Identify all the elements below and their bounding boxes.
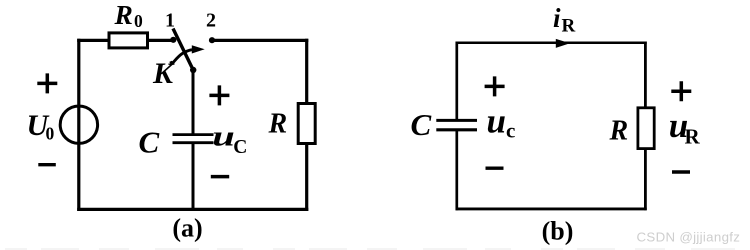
svg-text:0: 0: [134, 11, 143, 31]
svg-text:(b): (b): [542, 217, 574, 246]
node 2: [209, 37, 215, 43]
wire: right vertical lower: [305, 144, 308, 212]
voltage source U0 circle: [60, 106, 97, 143]
svg-text:R: R: [685, 125, 701, 149]
current arrow iR: [556, 39, 570, 48]
resistor R (b): [638, 108, 654, 149]
svg-text:R: R: [268, 109, 288, 140]
wire: capacitor to bottom: [192, 143, 195, 210]
wire: left vertical upper (b): [455, 42, 458, 121]
svg-text:(a): (a): [172, 214, 202, 243]
wire: right vertical lower (b): [644, 149, 647, 211]
svg-text:u: u: [212, 120, 235, 152]
wire: left vertical lower (b): [455, 130, 458, 210]
minus sign (capacitor a): [211, 175, 229, 179]
wire: right vertical upper (b): [644, 42, 647, 108]
svg-text:2: 2: [206, 10, 216, 32]
svg-text:C: C: [139, 125, 160, 160]
capacitor C (a) bottom plate: [173, 141, 214, 144]
faint cropped text line at bottom: [5, 248, 745, 250]
wire: right vertical upper: [305, 39, 308, 104]
node 1: [170, 37, 176, 43]
svg-text:i: i: [553, 3, 561, 33]
resistor R0: [109, 33, 148, 48]
capacitor C (b) bottom plate: [436, 128, 477, 131]
svg-text:0: 0: [46, 124, 55, 144]
wire: top-left segment from left corner to R0: [77, 39, 109, 42]
minus sign (capacitor b): [486, 166, 504, 169]
capacitor C (a) top plate: [173, 133, 214, 136]
wire: left vertical: [77, 39, 80, 211]
svg-text:K: K: [152, 57, 175, 90]
wire: switch to capacitor: [192, 70, 195, 135]
svg-text:C: C: [411, 107, 432, 142]
svg-text:R: R: [114, 0, 133, 30]
plus sign (capacitor a): [209, 85, 229, 105]
minus sign (resistor b): [672, 170, 690, 173]
wire: node 2 to top-right corner: [212, 39, 308, 42]
svg-text:R: R: [609, 115, 629, 146]
svg-text:C: C: [233, 137, 247, 158]
capacitor C (b) top plate: [436, 119, 477, 122]
wire: bottom horizontal: [77, 208, 308, 211]
svg-text:u: u: [487, 101, 506, 140]
plus sign (resistor b): [671, 81, 691, 101]
svg-text:CSDN @jjjiangfz: CSDN @jjjiangfz: [637, 229, 741, 244]
plus sign (capacitor b): [485, 76, 505, 96]
switch K blade: [173, 29, 193, 71]
svg-text:1: 1: [165, 10, 175, 32]
switch throw arrow (curved): [171, 50, 192, 63]
switch pivot node: [190, 67, 196, 73]
wire: R0 to node 1: [148, 39, 174, 42]
minus sign (source): [38, 163, 56, 166]
svg-text:c: c: [506, 118, 515, 142]
resistor R (a): [298, 104, 315, 144]
svg-text:R: R: [562, 16, 576, 37]
wire: loop top: [456, 41, 647, 44]
wire: loop bottom: [456, 207, 647, 210]
plus sign (source): [37, 73, 57, 93]
